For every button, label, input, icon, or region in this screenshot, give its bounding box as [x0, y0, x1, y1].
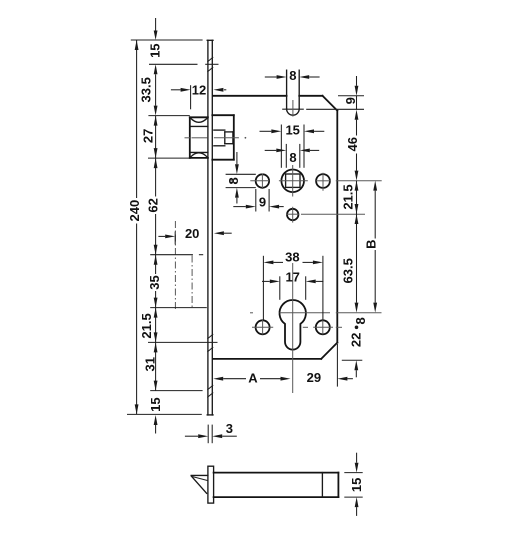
- lock case right edge: [336, 111, 338, 343]
- faceplate left edge: [207, 40, 209, 415]
- svg-text:A: A: [248, 370, 258, 385]
- svg-text:62: 62: [146, 198, 161, 212]
- svg-text:29: 29: [307, 370, 321, 385]
- svg-text:33.5: 33.5: [139, 77, 154, 102]
- lock case bottom edge: [213, 358, 321, 360]
- svg-text:9: 9: [343, 97, 358, 104]
- faceplate bottom cap: [207, 414, 213, 416]
- svg-text:12: 12: [192, 82, 206, 97]
- svg-text:21.5: 21.5: [341, 184, 356, 209]
- right chain dimension line x=356.5: [355, 76, 357, 377]
- dimension 38: [262, 256, 264, 320]
- svg-text:15: 15: [148, 43, 163, 57]
- svg-text:35: 35: [147, 275, 162, 289]
- top guide slot: [286, 70, 288, 109]
- svg-text:15: 15: [285, 123, 299, 138]
- left chain dimension line x=155.6: [155, 18, 157, 434]
- right chain arrowheads: [355, 86, 359, 96]
- faceplate side view: [208, 466, 214, 503]
- svg-text:17: 17: [285, 270, 299, 285]
- svg-text:240: 240: [127, 200, 142, 222]
- svg-text:20: 20: [185, 226, 199, 241]
- body bottom extension: [342, 359, 363, 361]
- dimension 8 left of follower: [226, 173, 256, 175]
- 29 extension line: [336, 344, 338, 387]
- screw hole right of follower: [316, 174, 330, 188]
- dimension 8 top slot: [265, 76, 277, 78]
- dimension 3 faceplate thickness: [207, 425, 209, 444]
- latch bolt side view body: [214, 472, 339, 474]
- A / 29 dimension line: [223, 378, 353, 380]
- latch end cap line: [321, 473, 323, 498]
- svg-text:B: B: [363, 240, 378, 249]
- svg-text:38: 38: [285, 249, 299, 264]
- dimension 15 latch height: [344, 472, 362, 474]
- svg-text:15: 15: [349, 478, 364, 492]
- slot cross line: [282, 108, 304, 110]
- screw hole left of cylinder: [256, 320, 270, 334]
- dimension B line x=375.2: [374, 191, 376, 303]
- euro profile cylinder hole: [280, 300, 306, 350]
- svg-text:31: 31: [143, 357, 158, 371]
- svg-text:8: 8: [226, 177, 241, 184]
- latch centerline: [185, 137, 239, 139]
- latch housing (right of faceplate): [212, 114, 234, 116]
- dimension 240 line: [136, 40, 138, 414]
- svg-text:9: 9: [259, 195, 266, 210]
- faceplate right edge: [211, 40, 213, 415]
- svg-text:3: 3: [226, 421, 233, 436]
- faceplate top cap: [207, 39, 213, 41]
- hole vertical center marks: [261, 174, 263, 190]
- lock case top-right chamfer: [323, 96, 338, 111]
- dot terminator for 8/22: [355, 326, 359, 330]
- svg-text:22: 22: [348, 333, 363, 347]
- svg-text:8: 8: [353, 317, 368, 324]
- white backing for 46: [347, 136, 359, 154]
- dimension 20: [174, 232, 176, 245]
- pocket dashed lines: [174, 221, 176, 309]
- svg-text:63.5: 63.5: [341, 258, 356, 283]
- svg-text:8: 8: [289, 150, 296, 165]
- latch stem step: [214, 130, 233, 146]
- dimension 8 square: [285, 144, 287, 168]
- dimension 15 follower: [280, 125, 282, 168]
- latch bevel nose: [191, 474, 208, 476]
- svg-text:21.5: 21.5: [139, 313, 154, 338]
- follower square spindle hole: [286, 174, 300, 187]
- body top extension: [338, 95, 364, 97]
- dimension 9: [255, 189, 257, 212]
- faceplate hatch marks: [207, 57, 213, 398]
- latch bolt (left of faceplate): [189, 117, 191, 158]
- screw hole left of follower: [256, 174, 269, 187]
- dimension 12: [190, 85, 192, 109]
- svg-text:46: 46: [345, 137, 360, 151]
- svg-text:27: 27: [141, 129, 156, 143]
- follower circle: [281, 170, 304, 193]
- lower hole row line: [286, 213, 299, 215]
- left tick lines: [127, 40, 219, 414]
- lock case top edge: [213, 95, 287, 97]
- lock case bottom-right chamfer: [321, 343, 337, 359]
- svg-text:15: 15: [148, 397, 163, 411]
- screw hole right of cylinder: [316, 320, 330, 334]
- chain arrowheads: [154, 31, 158, 41]
- vertical axis of cylinder / slot: [292, 100, 294, 117]
- white backings for on-line labels: [148, 43, 162, 58]
- follower row centerline: [230, 180, 235, 182]
- cylinder screws row centerline: [252, 326, 273, 328]
- svg-text:8: 8: [289, 68, 296, 83]
- hole below follower: [287, 209, 298, 220]
- cylinder row centerline: [250, 312, 253, 314]
- dimension 17: [279, 276, 281, 300]
